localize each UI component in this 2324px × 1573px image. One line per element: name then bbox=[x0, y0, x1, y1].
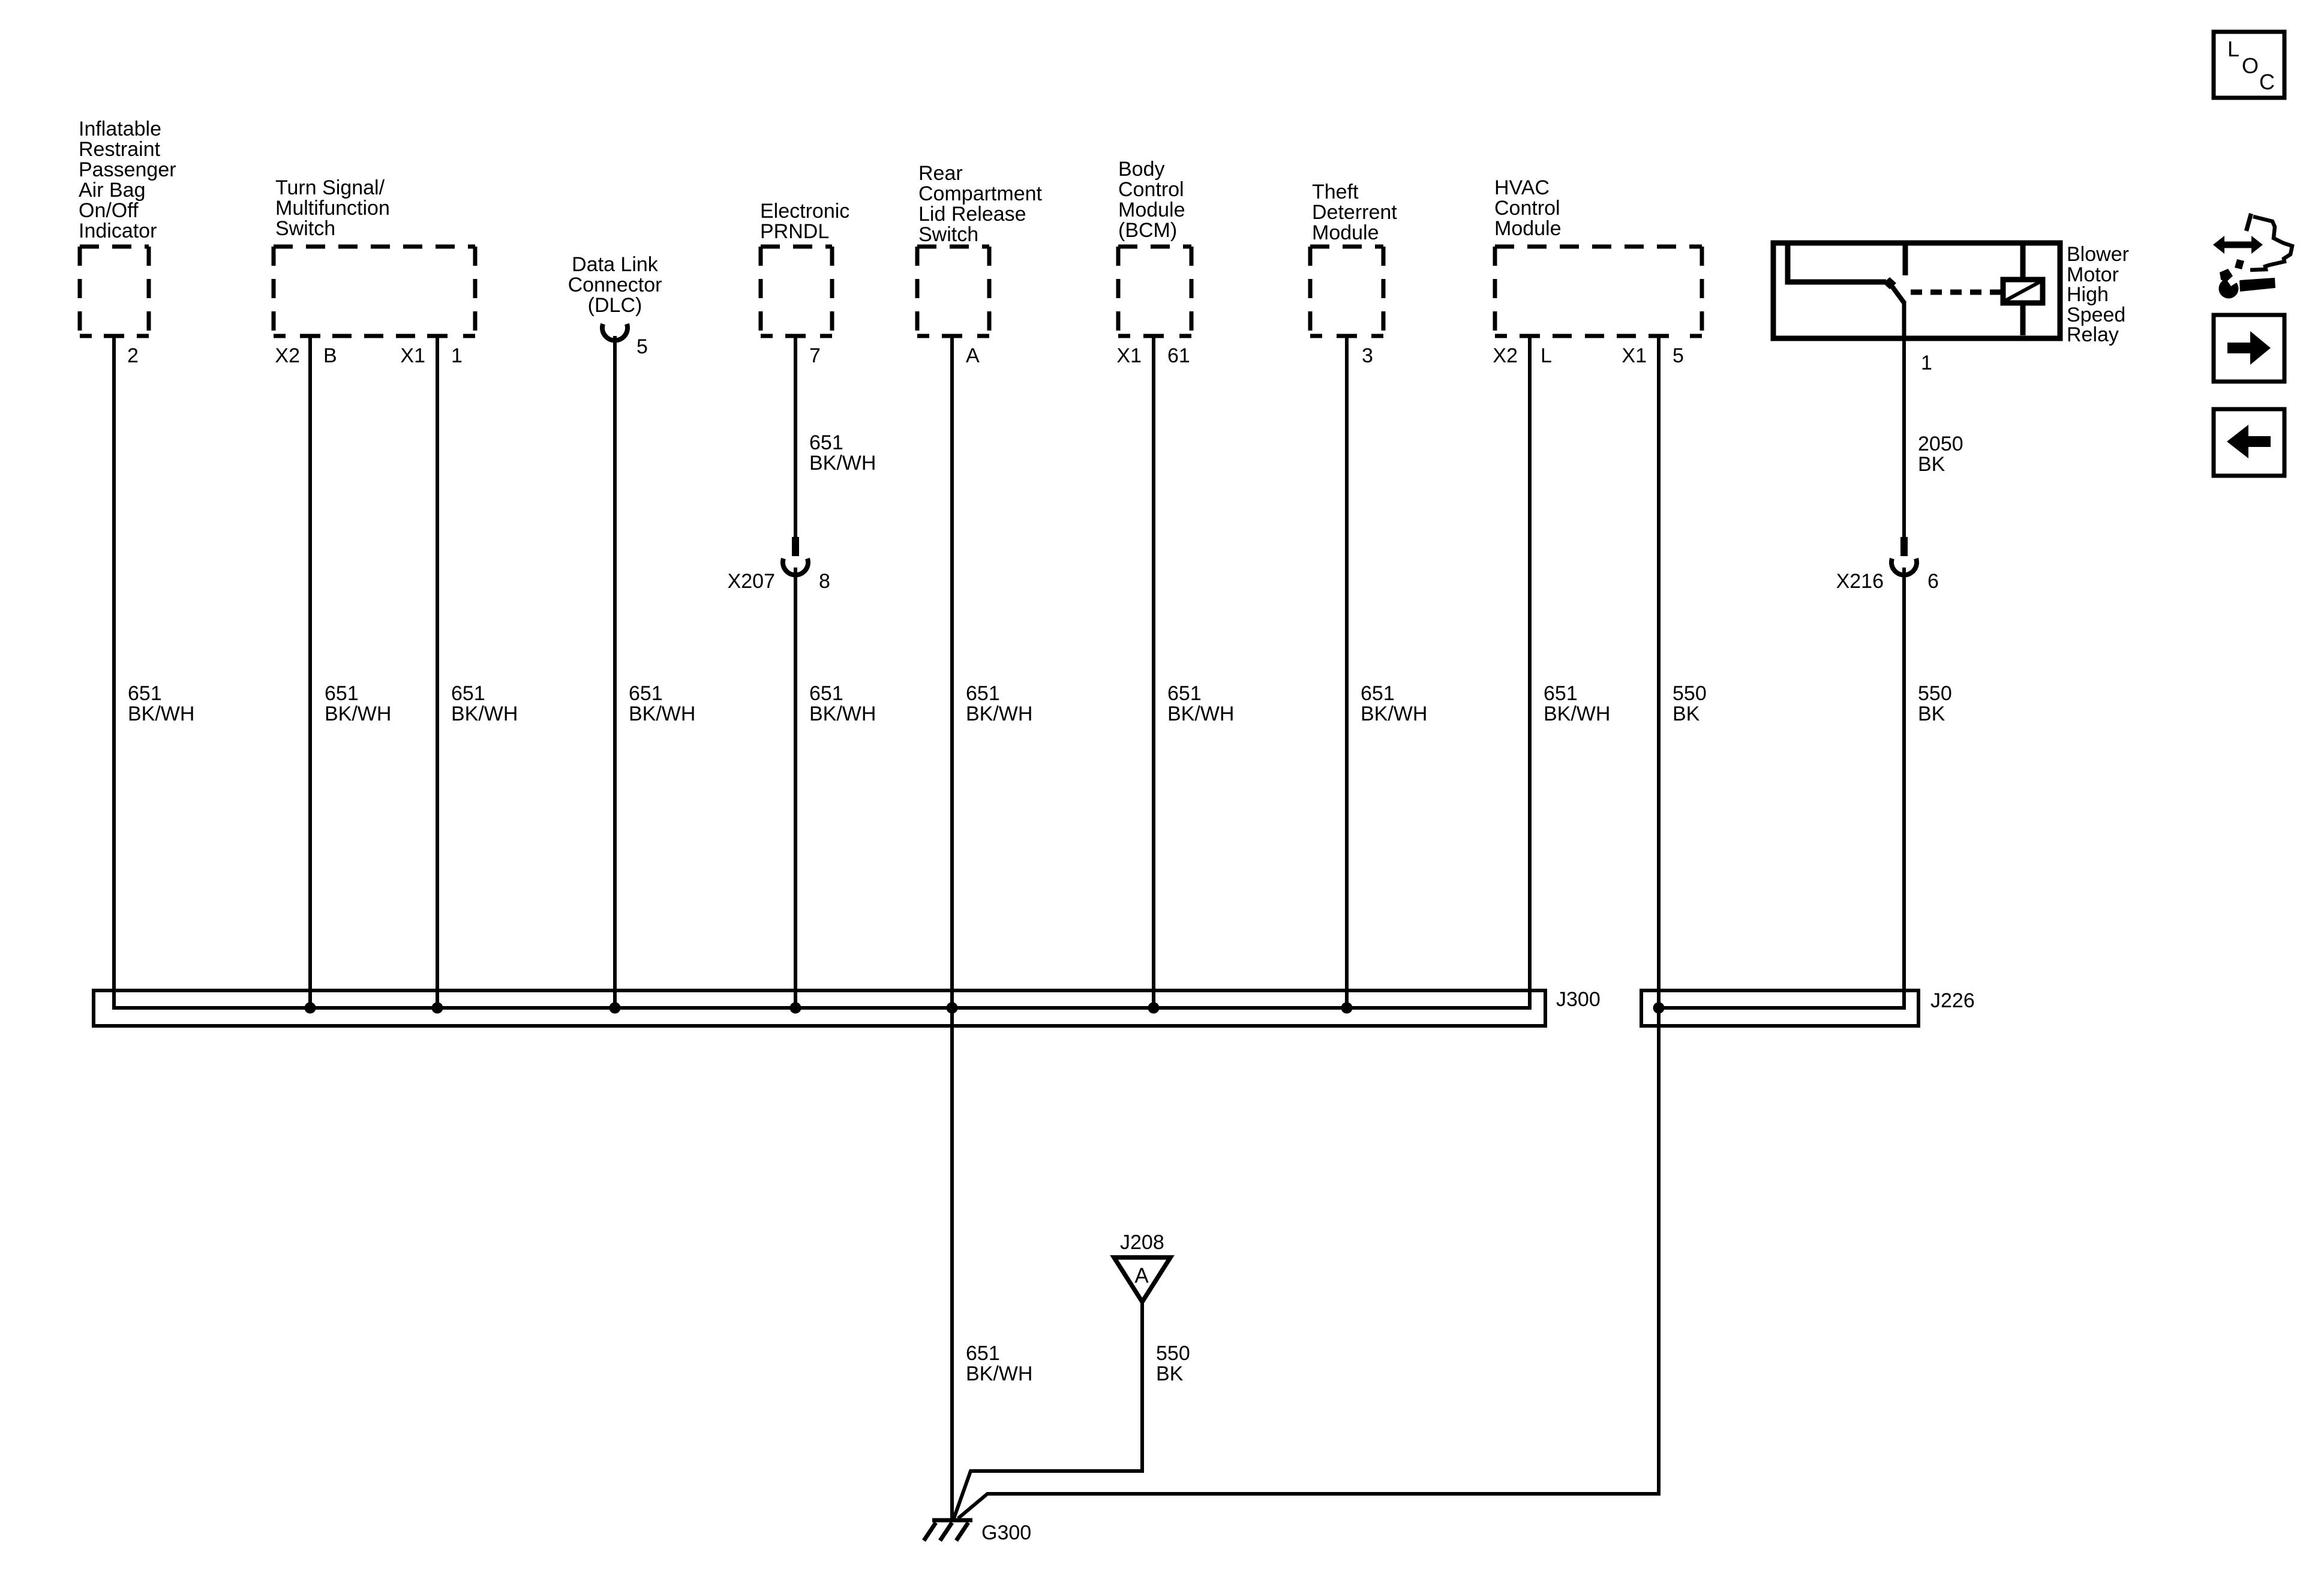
svg-text:Air Bag: Air Bag bbox=[79, 179, 146, 202]
svg-text:Module: Module bbox=[1118, 199, 1185, 221]
svg-text:X216: X216 bbox=[1836, 570, 1884, 593]
svg-text:BK/WH: BK/WH bbox=[128, 703, 194, 725]
svg-text:BK: BK bbox=[1156, 1362, 1184, 1385]
svg-text:BK: BK bbox=[1918, 703, 1945, 725]
svg-text:550: 550 bbox=[1156, 1342, 1190, 1365]
svg-text:651: 651 bbox=[451, 682, 485, 705]
svg-text:PRNDL: PRNDL bbox=[760, 220, 829, 243]
svg-text:651: 651 bbox=[325, 682, 359, 705]
svg-text:Lid Release: Lid Release bbox=[918, 203, 1026, 226]
svg-text:2050: 2050 bbox=[1918, 433, 1963, 455]
svg-text:651: 651 bbox=[966, 1342, 1000, 1365]
svg-text:651: 651 bbox=[809, 682, 843, 705]
svg-text:BK/WH: BK/WH bbox=[451, 703, 518, 725]
svg-text:BK/WH: BK/WH bbox=[325, 703, 391, 725]
svg-text:Relay: Relay bbox=[2067, 323, 2119, 346]
svg-text:Switch: Switch bbox=[918, 223, 978, 246]
svg-text:BK/WH: BK/WH bbox=[966, 703, 1032, 725]
svg-text:BK: BK bbox=[1673, 703, 1700, 725]
svg-text:651: 651 bbox=[1544, 682, 1578, 705]
svg-text:Theft: Theft bbox=[1312, 181, 1359, 203]
svg-text:651: 651 bbox=[1167, 682, 1202, 705]
svg-text:Blower: Blower bbox=[2067, 243, 2129, 266]
svg-text:7: 7 bbox=[809, 344, 821, 367]
svg-text:6: 6 bbox=[1927, 570, 1939, 593]
svg-text:BK: BK bbox=[1918, 453, 1945, 476]
svg-text:X2: X2 bbox=[1493, 344, 1518, 367]
svg-text:Compartment: Compartment bbox=[918, 182, 1043, 205]
svg-text:A: A bbox=[966, 344, 980, 367]
svg-text:Restraint: Restraint bbox=[79, 138, 161, 161]
svg-text:Indicator: Indicator bbox=[79, 220, 157, 242]
svg-text:J226: J226 bbox=[1930, 989, 1975, 1012]
svg-text:Rear: Rear bbox=[918, 162, 963, 185]
svg-text:1: 1 bbox=[1921, 352, 1932, 374]
svg-text:651: 651 bbox=[128, 682, 162, 705]
svg-text:X2: X2 bbox=[275, 344, 300, 367]
svg-text:Data Link: Data Link bbox=[572, 253, 659, 276]
svg-text:651: 651 bbox=[809, 431, 843, 454]
svg-text:Module: Module bbox=[1494, 217, 1562, 240]
svg-text:J208: J208 bbox=[1120, 1231, 1164, 1254]
svg-text:BK/WH: BK/WH bbox=[1167, 703, 1234, 725]
svg-text:1: 1 bbox=[451, 344, 463, 367]
svg-text:Multifunction: Multifunction bbox=[275, 197, 390, 220]
svg-text:High: High bbox=[2067, 283, 2109, 306]
svg-text:L: L bbox=[2227, 37, 2239, 61]
svg-text:651: 651 bbox=[1361, 682, 1395, 705]
svg-text:X1: X1 bbox=[1622, 344, 1647, 367]
svg-text:BK/WH: BK/WH bbox=[1361, 703, 1427, 725]
svg-text:On/Off: On/Off bbox=[79, 199, 139, 222]
svg-text:C: C bbox=[2259, 70, 2275, 94]
svg-text:BK/WH: BK/WH bbox=[809, 452, 876, 475]
svg-text:X1: X1 bbox=[400, 344, 425, 367]
svg-text:HVAC: HVAC bbox=[1494, 176, 1550, 199]
svg-text:B: B bbox=[323, 344, 337, 367]
svg-text:Inflatable: Inflatable bbox=[79, 118, 161, 140]
svg-text:BK/WH: BK/WH bbox=[809, 703, 876, 725]
svg-text:Turn Signal/: Turn Signal/ bbox=[275, 176, 385, 199]
svg-text:(BCM): (BCM) bbox=[1118, 219, 1177, 242]
svg-text:BK/WH: BK/WH bbox=[629, 703, 695, 725]
svg-text:O: O bbox=[2242, 53, 2259, 78]
svg-text:550: 550 bbox=[1673, 682, 1707, 705]
svg-text:Passenger: Passenger bbox=[79, 158, 176, 181]
svg-text:Body: Body bbox=[1118, 158, 1165, 181]
svg-text:5: 5 bbox=[1673, 344, 1684, 367]
svg-text:2: 2 bbox=[127, 344, 139, 367]
svg-text:3: 3 bbox=[1362, 344, 1373, 367]
svg-text:J300: J300 bbox=[1556, 988, 1601, 1011]
svg-text:651: 651 bbox=[966, 682, 1000, 705]
svg-text:G300: G300 bbox=[981, 1521, 1031, 1544]
svg-text:Control: Control bbox=[1494, 197, 1560, 220]
svg-text:A: A bbox=[1134, 1264, 1149, 1287]
svg-text:651: 651 bbox=[629, 682, 663, 705]
svg-text:Deterrent: Deterrent bbox=[1312, 201, 1397, 224]
svg-text:5: 5 bbox=[636, 335, 648, 358]
svg-text:(DLC): (DLC) bbox=[588, 294, 642, 317]
svg-text:X207: X207 bbox=[728, 570, 775, 593]
svg-text:BK/WH: BK/WH bbox=[966, 1362, 1032, 1385]
svg-text:BK/WH: BK/WH bbox=[1544, 703, 1610, 725]
svg-text:L: L bbox=[1541, 344, 1552, 367]
svg-text:550: 550 bbox=[1918, 682, 1952, 705]
svg-text:61: 61 bbox=[1167, 344, 1190, 367]
svg-text:Electronic: Electronic bbox=[760, 200, 849, 223]
svg-text:8: 8 bbox=[819, 570, 830, 593]
svg-text:X1: X1 bbox=[1116, 344, 1142, 367]
svg-text:Connector: Connector bbox=[568, 274, 662, 296]
svg-text:Control: Control bbox=[1118, 178, 1184, 201]
svg-text:Module: Module bbox=[1312, 221, 1379, 244]
svg-text:Switch: Switch bbox=[275, 217, 335, 240]
